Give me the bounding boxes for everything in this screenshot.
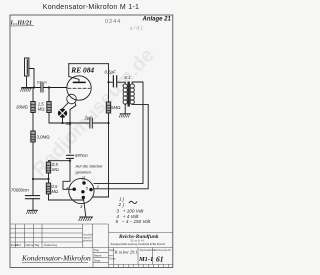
svg-text:Tag: Tag — [94, 248, 99, 252]
wire heater rail — [63, 122, 90, 124]
wire capsule membrane to ground — [26, 76, 28, 88]
wire 70000cm to ground — [32, 199, 34, 210]
wire filament right down — [70, 103, 76, 153]
svg-text:a / A 1: a / A 1 — [130, 26, 143, 31]
wire secondary top to plug — [94, 82, 143, 184]
node bus-cap junction — [107, 81, 109, 83]
svg-text:Anlage 21: Anlage 21 — [142, 17, 172, 23]
resistor 3,0M — [31, 131, 35, 142]
svg-text:3 + 100 Volt: 3 + 100 Volt — [116, 208, 144, 213]
svg-text:Gepr.: Gepr. — [109, 257, 116, 261]
svg-text:Tag: Tag — [35, 243, 40, 247]
svg-text:70000cm: 70000cm — [11, 188, 29, 193]
svg-text:Zeichnungs-Nr.: Zeichnungs-Nr. — [154, 248, 172, 252]
wire 0,5M lower to plug — [49, 194, 84, 200]
plug pin 3 — [82, 196, 85, 199]
right block lines — [109, 232, 173, 234]
svg-text:Zweiganstalt-Leitung Festland: Zweiganstalt-Leitung Festland E.Ba Rundf… — [111, 242, 166, 246]
plug pin 4 — [73, 188, 76, 191]
node filament-divider — [69, 160, 71, 162]
svg-text:K.m.bor 29.1: K.m.bor 29.1 — [114, 250, 138, 255]
svg-text:Name: Name — [26, 243, 34, 247]
resistor 1,5M — [48, 88, 50, 102]
rheostat 6ohm — [58, 109, 67, 118]
svg-text:MΩ: MΩ — [52, 189, 59, 194]
wire capsule backplate to grid node — [29, 69, 34, 88]
svg-text:597cm: 597cm — [75, 153, 88, 158]
wire 3,0M down — [32, 142, 34, 195]
svg-text:MΩ: MΩ — [52, 167, 59, 172]
svg-text:gesehen: gesehen — [83, 238, 94, 242]
svg-text:M1-1: M1-1 — [138, 256, 153, 263]
resistor 5M — [106, 102, 110, 113]
node rail-bus — [107, 122, 109, 124]
sheet frame — [10, 15, 173, 268]
approval box text — [83, 232, 94, 242]
svg-text:6:1: 6:1 — [125, 75, 131, 80]
ground plug — [79, 217, 93, 221]
svg-text:Kondensator-Mikrofon: Kondensator-Mikrofon — [21, 254, 91, 263]
wire top anode run — [69, 63, 109, 65]
svg-text:gesehen: gesehen — [76, 170, 92, 175]
capacitor 597cm — [67, 154, 74, 156]
wire junction-left to divider — [33, 178, 49, 180]
svg-text:5 − 4 – 150 Volt: 5 − 4 – 150 Volt — [116, 219, 151, 224]
capacitor 70000cm — [26, 195, 40, 197]
microphone capsule M — [25, 58, 29, 76]
node divider junction — [47, 178, 49, 180]
svg-text:0244: 0244 — [105, 19, 121, 25]
plug body — [69, 178, 94, 203]
tube RE084 — [67, 76, 91, 100]
node grid-junction2 — [48, 86, 50, 88]
transformer secondary winding — [130, 84, 134, 104]
wire plug pin3 to ground — [83, 198, 85, 217]
wire grid rail — [22, 87, 40, 89]
svg-text:30MΩ: 30MΩ — [16, 105, 28, 110]
svg-text:3,0MΩ: 3,0MΩ — [37, 135, 50, 140]
revision table lines — [10, 223, 109, 225]
transformer primary winding — [124, 82, 126, 84]
svg-text:0,5μF: 0,5μF — [105, 70, 117, 75]
svg-text:100cm: 100cm — [37, 81, 47, 85]
signature cells — [94, 248, 116, 262]
ground 70000cm — [27, 210, 38, 213]
node filament-rail — [69, 122, 71, 124]
svg-text:Änderung: Änderung — [44, 243, 57, 247]
svg-text:Zul.: Zul. — [17, 243, 22, 247]
capacitor 0,5uF — [109, 81, 113, 83]
tube grid dashes — [68, 87, 90, 89]
resistor 0,5M lower — [46, 183, 50, 194]
svg-text:MΩ: MΩ — [38, 107, 45, 112]
wire filament left to rheostat — [63, 103, 69, 109]
wire divider top to filament line — [49, 160, 71, 162]
svg-text:5MΩ: 5MΩ — [111, 105, 120, 110]
bottom tick strip — [114, 264, 169, 267]
svg-text:Gepr.: Gepr. — [94, 258, 101, 262]
ground capsule — [21, 88, 32, 91]
wire bus to plug pin5 — [93, 196, 109, 198]
node junction-left — [32, 178, 34, 180]
wire 30M to 3.0M — [32, 113, 34, 132]
svg-text:2μF: 2μF — [84, 116, 93, 121]
capacitor 100cm — [40, 83, 42, 92]
svg-text:61: 61 — [156, 254, 164, 263]
plug pin 1 — [82, 181, 85, 184]
tube filament — [67, 94, 77, 104]
resistor 0,5M upper — [48, 161, 50, 162]
wire secondary bottom to plug — [94, 104, 149, 189]
pin voltage list — [116, 197, 151, 225]
tube anode — [74, 81, 86, 83]
wire HT bus — [108, 64, 110, 102]
svg-text:Name: Name — [94, 253, 102, 257]
ground transformer — [119, 114, 130, 117]
plug pin 5 — [81, 190, 84, 193]
revision table header labels — [11, 243, 58, 247]
capacitor 2uF — [89, 118, 91, 128]
node rheostat-rail — [61, 122, 63, 124]
node grid-junction1 — [33, 86, 35, 88]
plug pin 2 — [89, 188, 92, 191]
svg-text:2: 2 — [118, 202, 122, 207]
svg-text:Kondensator-Mikrofon M 1-1: Kondensator-Mikrofon M 1-1 — [43, 4, 140, 11]
svg-text:Auf die Stecker: Auf die Stecker — [75, 164, 104, 169]
wire 1,5M bottom to rail — [49, 113, 63, 124]
resistor 30M — [32, 88, 34, 102]
svg-text:RE 084: RE 084 — [70, 65, 94, 74]
paper background — [0, 0, 180, 275]
